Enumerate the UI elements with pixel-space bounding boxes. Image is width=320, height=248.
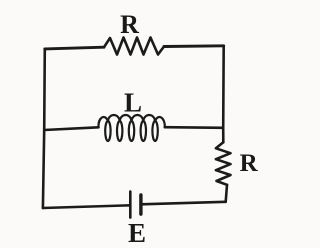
- coil hump 3: [120, 115, 132, 121]
- coil loop 1: [105, 121, 110, 141]
- wire: top-right segment: [164, 44, 224, 48]
- wire: bottom-left segment: [43, 205, 130, 208]
- coil loop 3: [129, 121, 134, 141]
- inductor L coil: [98, 115, 164, 141]
- battery E: short plate: [139, 195, 142, 214]
- coil hump 4: [132, 115, 144, 121]
- coil hump 2: [108, 115, 120, 121]
- coil loop 4: [141, 121, 146, 141]
- wire: middle-right segment: [165, 126, 223, 129]
- wire: right vertical upper: [222, 46, 225, 143]
- wire: right vertical lower: [226, 185, 227, 202]
- resistor R2 (right): [216, 142, 231, 185]
- coil loop 2: [117, 121, 122, 141]
- wire: bottom-right segment: [141, 202, 226, 205]
- svg-text:R: R: [120, 10, 139, 39]
- battery E: long plate: [129, 192, 132, 218]
- svg-text:R: R: [240, 150, 259, 177]
- coil hump 5: [143, 115, 155, 121]
- svg-text:E: E: [128, 218, 146, 248]
- coil loop 5: [152, 121, 157, 141]
- wire: left vertical: [43, 49, 45, 208]
- wire: middle-left segment: [44, 127, 98, 130]
- coil exit hump: [155, 117, 165, 127]
- resistor R1 (top): [104, 38, 164, 55]
- svg-text:L: L: [124, 88, 142, 118]
- wire: top-left segment: [45, 47, 104, 49]
- coil entry hump: [98, 117, 107, 127]
